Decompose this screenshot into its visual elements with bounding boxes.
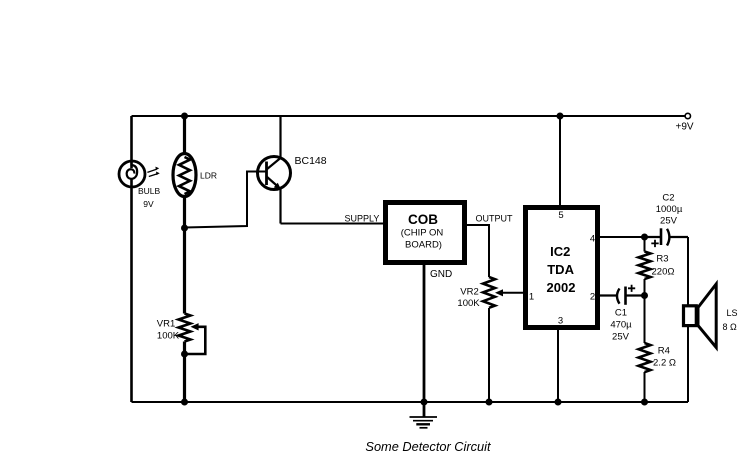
svg-text:COB: COB — [408, 212, 438, 227]
svg-text:2.2 Ω: 2.2 Ω — [653, 358, 676, 369]
svg-text:2002: 2002 — [547, 280, 576, 295]
svg-text:BOARD): BOARD) — [405, 240, 442, 251]
svg-text:SUPPLY: SUPPLY — [345, 214, 380, 224]
svg-text:C1: C1 — [615, 308, 627, 319]
svg-text:+9V: +9V — [676, 122, 694, 133]
svg-text:1000µ: 1000µ — [656, 204, 683, 215]
svg-text:5: 5 — [558, 210, 563, 221]
svg-text:4: 4 — [590, 234, 595, 245]
svg-text:IC2: IC2 — [550, 244, 570, 259]
svg-text:220Ω: 220Ω — [652, 267, 675, 278]
svg-text:VR1: VR1 — [157, 319, 175, 330]
svg-text:VR2: VR2 — [460, 287, 478, 298]
svg-text:3: 3 — [558, 316, 563, 327]
svg-text:BC148: BC148 — [295, 155, 327, 167]
svg-text:100K: 100K — [157, 331, 180, 342]
svg-text:2: 2 — [590, 292, 595, 303]
svg-text:100K: 100K — [457, 298, 480, 309]
svg-text:R3: R3 — [656, 254, 668, 265]
svg-text:OUTPUT: OUTPUT — [476, 214, 514, 224]
svg-text:GND: GND — [430, 269, 452, 280]
svg-text:Some Detector Circuit: Some Detector Circuit — [365, 439, 491, 454]
svg-text:8 Ω: 8 Ω — [723, 322, 738, 332]
svg-text:470µ: 470µ — [610, 320, 632, 331]
svg-text:(CHIP ON: (CHIP ON — [401, 228, 444, 239]
svg-text:BULB: BULB — [138, 186, 161, 196]
svg-text:25V: 25V — [612, 332, 630, 343]
svg-text:1: 1 — [529, 292, 534, 303]
svg-text:LS: LS — [727, 308, 738, 318]
svg-text:25V: 25V — [660, 216, 678, 227]
svg-text:R4: R4 — [658, 346, 670, 357]
svg-text:TDA: TDA — [547, 262, 574, 277]
svg-text:C2: C2 — [662, 193, 674, 204]
svg-text:9V: 9V — [143, 199, 154, 209]
svg-text:LDR: LDR — [200, 171, 217, 181]
